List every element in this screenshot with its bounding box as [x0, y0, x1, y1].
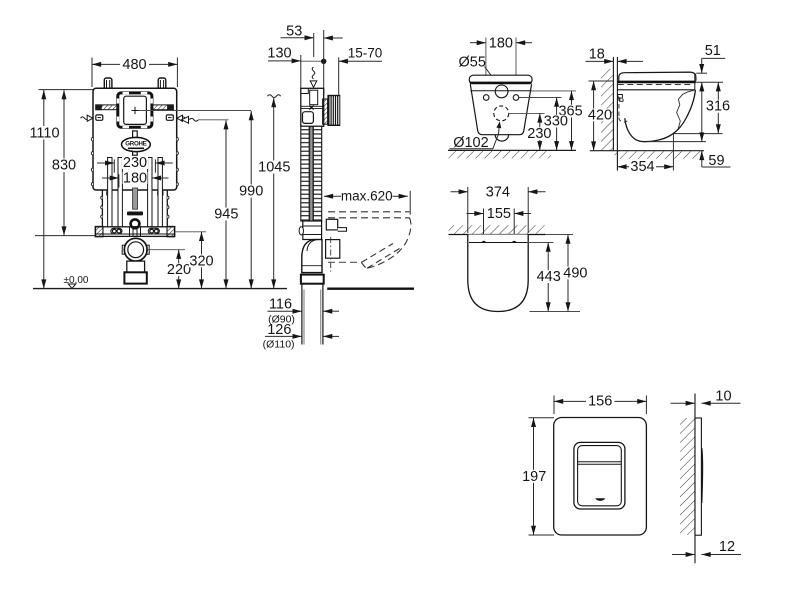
wall hatch — [680, 418, 695, 535]
internal band with X — [301, 106, 324, 110]
dim 220 — [178, 250, 180, 289]
outlet elbow circle — [124, 238, 147, 261]
ground line right thick — [327, 288, 414, 290]
dim 15-70 — [339, 60, 382, 62]
flush bend ribbed block — [327, 95, 340, 126]
svg-text:1045: 1045 — [258, 160, 290, 176]
dim 830 — [63, 90, 65, 236]
ground line — [448, 149, 576, 151]
right clip — [166, 115, 173, 120]
dim 480 top — [92, 58, 177, 88]
outlet centreline to 220 dim — [148, 249, 186, 251]
logo stem above — [133, 131, 138, 138]
right threaded rod pair — [148, 158, 163, 228]
rim plane extension left — [589, 80, 614, 82]
svg-text:230: 230 — [527, 126, 551, 142]
svg-text:max.620: max.620 — [341, 188, 393, 203]
outlet hole diam 102 dashed — [494, 106, 509, 121]
wall hatch — [601, 69, 613, 151]
dim 374 — [451, 187, 546, 233]
left hinge — [482, 241, 486, 242]
svg-text:156: 156 — [588, 394, 612, 410]
plate side profile — [695, 418, 701, 535]
hidden WC bowl dashed rim lines — [328, 212, 410, 218]
svg-text:1110: 1110 — [29, 125, 59, 141]
outlet connector solid — [326, 240, 340, 259]
block front reference line — [338, 57, 340, 94]
floor hatch — [449, 151, 552, 158]
supply hole diam 55 — [495, 85, 508, 98]
svg-text:830: 830 — [52, 158, 76, 174]
seat rim dark band — [470, 82, 531, 85]
svg-text:51: 51 — [705, 43, 721, 59]
bracket left slot + rod nuts — [111, 228, 122, 234]
svg-text:374: 374 — [486, 184, 510, 200]
window centre cross — [131, 107, 138, 114]
hidden bowl right curve — [367, 218, 411, 268]
window inner square — [124, 96, 147, 124]
bowl hidden rear dashed — [619, 97, 627, 123]
bowl front corner vertical — [694, 73, 696, 90]
dim 1110 — [43, 90, 45, 289]
wall lines — [612, 57, 614, 151]
GROHE logo oval — [121, 137, 150, 151]
svg-text:59: 59 — [708, 153, 724, 169]
svg-text:155: 155 — [487, 206, 511, 222]
bracket right end block — [167, 226, 175, 236]
left supply wavy arrow — [81, 115, 93, 121]
svg-text:220: 220 — [167, 262, 191, 278]
dim 126 (diam 110) — [265, 335, 302, 337]
bowl top view outline — [468, 235, 528, 312]
svg-text:180: 180 — [123, 170, 147, 186]
dim 320 — [176, 231, 207, 233]
svg-text:126: 126 — [267, 322, 291, 338]
corrugated column left — [301, 126, 309, 221]
pipe sleeve — [301, 275, 324, 284]
outlet side tabs — [122, 245, 124, 254]
outlet ring — [131, 219, 140, 228]
window frame white notches — [117, 92, 153, 128]
drain elbow — [302, 240, 322, 273]
water supply wavy arrow down — [310, 67, 317, 87]
max.620 extension line — [409, 191, 411, 215]
svg-text:GROHE: GROHE — [125, 141, 146, 148]
dim 990 — [250, 111, 252, 289]
outlet pipe — [127, 261, 145, 272]
tank edge scallops — [91, 138, 178, 219]
right hinge — [512, 241, 516, 242]
wall bracket details — [618, 95, 623, 102]
bracket level extension line — [35, 235, 96, 237]
wall hatch band — [449, 225, 546, 234]
bowl body — [470, 84, 531, 135]
corrugated column right — [313, 126, 321, 221]
svg-text:354: 354 — [630, 159, 654, 175]
svg-text:480: 480 — [122, 57, 146, 73]
dim 420 — [593, 81, 595, 151]
svg-text:53: 53 — [286, 24, 302, 40]
logo recess mark — [595, 498, 605, 501]
hatched connector to flush bend — [323, 99, 328, 124]
dim 116 (diam 90) — [268, 310, 302, 312]
flush pipe centre lines — [310, 126, 312, 221]
svg-text:180: 180 — [489, 35, 513, 51]
dim 330 — [556, 98, 558, 151]
access rounded square — [303, 112, 314, 124]
drain arc below bowl — [495, 135, 508, 141]
svg-text:12: 12 — [719, 539, 735, 555]
bracket left end block — [95, 226, 103, 236]
dim 443 — [527, 242, 554, 244]
wall line — [694, 394, 696, 564]
bowl lowest level extension — [648, 141, 706, 143]
svg-text:10: 10 — [715, 389, 731, 405]
extension lines right — [509, 91, 576, 114]
top extension line — [39, 89, 94, 91]
tank lower narrow section walls — [102, 190, 167, 227]
svg-text:±0,00: ±0,00 — [64, 275, 89, 286]
dim 230 bolt spacing — [97, 159, 173, 172]
floor hatch — [615, 151, 703, 158]
svg-text:130: 130 — [267, 46, 291, 62]
right wall-anchor bar — [152, 105, 174, 110]
bowl rim lower line — [618, 89, 695, 91]
flush pipe grey bar — [133, 188, 138, 209]
dim 180 fixing holes — [470, 38, 532, 96]
dim 53 — [281, 33, 343, 57]
centreline to 990 dim — [139, 110, 252, 112]
svg-text:990: 990 — [239, 184, 263, 200]
outlet sleeve — [124, 272, 146, 283]
svg-text:18: 18 — [589, 47, 605, 63]
ground line left — [33, 288, 287, 290]
rear reference line — [323, 30, 325, 95]
cistern tank outline — [93, 88, 177, 190]
svg-text:945: 945 — [214, 206, 238, 222]
inlet connector solid — [326, 219, 337, 230]
dim 354 — [672, 134, 674, 171]
svg-text:15-70: 15-70 — [348, 46, 383, 61]
bracket right slot + rod nuts — [148, 228, 159, 234]
mounting bracket band — [96, 227, 175, 237]
flush plate — [554, 418, 647, 536]
front face extension line — [300, 55, 302, 88]
left threaded rod pair — [108, 158, 123, 228]
supply centre dot — [321, 59, 326, 64]
bracket centre fitting — [130, 227, 141, 237]
dim 197 — [529, 418, 555, 535]
wall line — [449, 234, 546, 236]
tank top step — [301, 88, 309, 93]
tank side body — [301, 88, 324, 126]
dim 156 — [554, 396, 646, 415]
connector centreline dash-dot — [330, 237, 332, 272]
dim 316 — [717, 82, 719, 133]
bowl body side — [625, 90, 696, 142]
left clip — [96, 115, 103, 120]
left fixing hole — [483, 95, 489, 101]
svg-text:490: 490 — [563, 265, 587, 281]
right filler post — [158, 78, 166, 88]
svg-text:Ø55: Ø55 — [459, 54, 486, 70]
left filler post — [104, 78, 112, 88]
seat plane dashed — [618, 84, 693, 86]
svg-text:420: 420 — [588, 107, 612, 123]
button split lines — [578, 461, 622, 463]
dim 1045 — [268, 95, 281, 98]
svg-text:320: 320 — [189, 253, 213, 269]
button inner — [578, 446, 622, 506]
dim max.620 — [324, 195, 408, 197]
inspection window outer frame — [118, 93, 152, 127]
dim 365 — [571, 91, 573, 150]
svg-text:443: 443 — [537, 269, 561, 285]
hidden outlet channel diagonals — [362, 244, 400, 269]
dim 130 — [268, 60, 324, 62]
dim 490 — [545, 234, 573, 236]
left wall-anchor bar — [96, 105, 118, 110]
keyhole notches at tank bottom — [107, 189, 112, 195]
logo stem below — [133, 152, 138, 156]
dim 180 bolt spacing — [102, 174, 169, 187]
dim 155 — [467, 209, 532, 241]
right fixing hole — [513, 95, 519, 101]
ground line — [590, 150, 704, 152]
bowl rim lower line — [470, 90, 531, 92]
svg-text:316: 316 — [706, 99, 730, 115]
bowl bottom corner extension — [673, 133, 723, 135]
lower fitting body — [303, 221, 322, 240]
dark connector bar — [127, 212, 143, 216]
bowl interior wavy line — [677, 90, 695, 129]
dim 230 — [539, 113, 541, 150]
button outer — [574, 442, 625, 509]
right supply wavy arrow — [177, 115, 189, 121]
dim 59 — [701, 82, 703, 141]
seat lid side — [619, 72, 696, 81]
fill valve inlet — [310, 90, 318, 105]
rim plane extension right — [696, 81, 723, 83]
seat rear edge line — [469, 242, 527, 244]
hidden bowl bottom dashed — [328, 261, 362, 263]
svg-text:230: 230 — [123, 155, 147, 171]
seat rim dark band — [618, 81, 696, 84]
WC seat cap — [469, 75, 532, 84]
svg-text:(Ø110): (Ø110) — [263, 338, 295, 350]
dim 945 — [198, 119, 228, 121]
svg-text:197: 197 — [522, 469, 546, 485]
svg-text:116: 116 — [269, 296, 292, 312]
pipe below ground — [302, 284, 323, 345]
